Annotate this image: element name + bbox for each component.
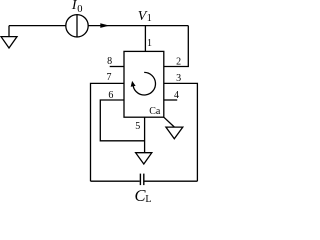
capacitor CL [140,174,143,186]
wire: left ground to current source [9,25,66,27]
svg-text:0: 0 [77,4,82,15]
svg-text:1: 1 [147,38,152,49]
wire: Ca corner diagonal to ground [164,117,175,127]
label V1 [138,9,152,24]
svg-text:1: 1 [147,13,152,24]
current source I0 [66,15,88,37]
wire: V1 rail down right side to pin 2 [164,26,189,67]
svg-text:8: 8 [107,56,112,67]
ground G3 (Ca) [166,127,183,139]
wire: pin 1 drop from V1 rail [144,26,146,52]
wire: pin 5 down to ground [144,117,146,152]
wire: pin 6 loop to pin 5 net [100,100,144,141]
svg-text:4: 4 [174,90,179,101]
wire: pin 3 to right loop down to bottom [164,83,198,181]
wire: CL to bottom right corner [145,180,198,182]
svg-text:5: 5 [135,121,140,132]
rotation arrow inside U1 [131,72,156,95]
label I0 [71,0,83,15]
svg-text:2: 2 [176,57,181,68]
pin 4 stub [164,99,177,101]
svg-text:L: L [145,194,151,204]
ground G2 (below pin 5) [136,153,152,164]
svg-text:6: 6 [108,90,113,101]
wire: current source to node V1 with current arrow [88,23,188,28]
op-amp U1 (8-pin box) [124,51,164,117]
svg-text:7: 7 [107,72,112,83]
svg-text:Ca: Ca [149,106,161,117]
svg-text:3: 3 [176,73,181,84]
pin 8 stub [110,66,124,68]
wire: pin 7 to left loop down to bottom [91,83,125,181]
ground G1 (top left) [1,26,17,48]
label CL [135,186,152,205]
wire: bottom left segment to CL [91,180,140,182]
